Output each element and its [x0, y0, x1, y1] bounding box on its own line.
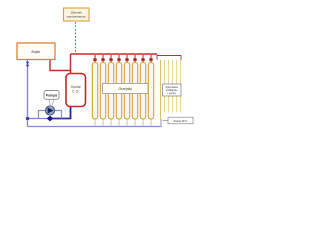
svg-text:Kocioł: Kocioł — [71, 85, 80, 89]
svg-text:Pompa: Pompa — [46, 94, 57, 98]
wire: red branch to Bojler coil — [50, 60, 71, 71]
check valve diamond — [47, 116, 54, 122]
wire: pump bypass loop — [39, 111, 62, 119]
RTL valve label with leader — [163, 117, 194, 124]
svg-text:wyrównawczy: wyrównawczy — [67, 15, 87, 19]
svg-text:Zawór RTL: Zawór RTL — [174, 119, 188, 123]
boiler box (Bojler) — [17, 43, 55, 60]
svg-text:( opcja ): ( opcja ) — [167, 92, 176, 95]
wire: Kociol return drop — [70, 107, 72, 119]
svg-text:C.O.: C.O. — [72, 89, 79, 93]
pump callout label (Pompa) — [44, 91, 59, 107]
expansion tank box (Zbiornik wyrownawczy) — [64, 8, 90, 21]
radiator valve marks — [93, 58, 152, 61]
wire: floor-heating supply header — [157, 55, 181, 61]
radiator columns — [92, 63, 153, 120]
wire: red supply riser to Kociol — [70, 54, 72, 74]
wire: pump suction line left segment — [28, 118, 51, 120]
radiator return stubs — [95, 119, 151, 126]
valve marks on Bojler return — [26, 62, 29, 65]
wire: blue return from Bojler — [27, 60, 29, 127]
floor heating label — [163, 84, 182, 96]
wire: red supply manifold — [71, 53, 158, 55]
floor heating coil lines — [161, 60, 181, 120]
wire: floor return riser — [160, 119, 162, 127]
svg-text:Grzejniki: Grzejniki — [118, 87, 132, 91]
node: junction on return — [26, 117, 29, 120]
Kociol C.O. box — [66, 74, 86, 107]
radiators label (Grzejniki) — [103, 84, 149, 94]
wire: pump suction line right segment — [50, 118, 71, 120]
wire: dashed control line from expansion tank — [75, 22, 77, 53]
wire: bottom return main — [28, 126, 162, 128]
svg-text:Bojler: Bojler — [32, 50, 42, 54]
pump symbol — [45, 106, 54, 115]
radiator supply stubs with valves — [95, 55, 151, 64]
